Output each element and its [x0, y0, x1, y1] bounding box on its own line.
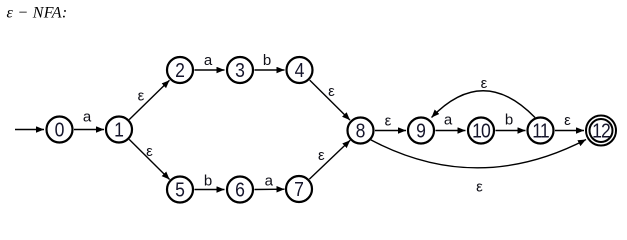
- state 9: [408, 118, 434, 144]
- wire 5 to 6 label b: [195, 189, 225, 191]
- wire 1 to 5 label epsilon: [129, 139, 169, 179]
- svg-text:12: 12: [592, 119, 610, 141]
- state 6: [227, 177, 253, 203]
- svg-text:b: b: [505, 112, 513, 129]
- wire 2 to 3 label a: [195, 69, 225, 71]
- svg-text:8: 8: [356, 119, 366, 141]
- wire 11 to 12 label epsilon: [555, 130, 584, 132]
- svg-text:2: 2: [175, 59, 185, 81]
- state 8: [348, 118, 374, 144]
- wire 6 to 7 label a: [255, 188, 285, 190]
- wire 8 to 9 label epsilon: [375, 130, 406, 132]
- svg-text:3: 3: [235, 59, 245, 81]
- state 4: [287, 57, 313, 83]
- svg-text:b: b: [204, 173, 212, 190]
- wire 7 to 8 label epsilon: [309, 140, 350, 179]
- state 3: [227, 57, 253, 83]
- svg-text:ε: ε: [138, 88, 145, 105]
- state 1: [106, 117, 132, 143]
- state 0: [47, 117, 73, 143]
- svg-text:a: a: [444, 112, 453, 129]
- wire 9 to 10 label a: [436, 130, 466, 132]
- svg-text:a: a: [204, 52, 213, 69]
- svg-text:ε: ε: [318, 147, 325, 164]
- state 7: [286, 176, 312, 202]
- svg-text:9: 9: [416, 119, 426, 141]
- state 10: [468, 118, 494, 144]
- wire 11 to 9 top arc label epsilon: [432, 91, 536, 118]
- wire 10 to 11 label b: [496, 130, 526, 132]
- svg-text:a: a: [83, 109, 92, 126]
- svg-text:ε: ε: [481, 75, 488, 92]
- state 11: [528, 118, 554, 144]
- svg-text:ε: ε: [564, 112, 571, 129]
- wire 8 to 12 bottom arc label epsilon: [371, 140, 586, 168]
- svg-text:5: 5: [175, 178, 185, 200]
- start arrow: [15, 129, 44, 131]
- svg-text:ε − NFA:: ε − NFA:: [7, 5, 68, 22]
- wire 4 to 8 label epsilon: [310, 80, 350, 120]
- svg-text:ε: ε: [328, 83, 335, 100]
- svg-text:ε: ε: [385, 113, 392, 130]
- svg-text:11: 11: [532, 119, 549, 141]
- svg-text:10: 10: [472, 119, 490, 141]
- svg-text:4: 4: [295, 59, 305, 81]
- svg-text:1: 1: [114, 118, 124, 140]
- svg-text:7: 7: [294, 178, 304, 200]
- svg-text:ε: ε: [476, 179, 483, 196]
- state 5: [167, 177, 193, 203]
- wire 3 to 4 label b: [255, 69, 285, 71]
- wire 1 to 2 label epsilon: [129, 80, 169, 119]
- state 2: [167, 57, 193, 83]
- svg-text:6: 6: [235, 178, 245, 200]
- svg-text:a: a: [265, 173, 274, 190]
- wire 0 to 1 label a: [74, 129, 104, 131]
- state 12 accepting: [586, 116, 616, 146]
- svg-text:b: b: [263, 52, 271, 69]
- svg-text:0: 0: [55, 118, 65, 140]
- svg-text:ε: ε: [146, 143, 153, 160]
